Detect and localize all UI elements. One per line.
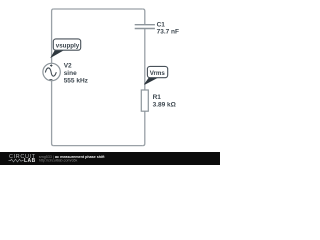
label V2 sine 555 kHz	[64, 62, 89, 84]
svg-text:http://circuitlab.com/c6k: http://circuitlab.com/c6k	[39, 158, 78, 162]
wire from V2 top up to top-left corner (node vsupply)	[52, 9, 54, 63]
wire C1 bottom plate to R1 top (node Vrms)	[144, 29, 146, 90]
label R1 3.89 kOhm	[153, 94, 176, 108]
svg-text:LAB: LAB	[24, 158, 36, 164]
svg-text:73.7 nF: 73.7 nF	[157, 28, 179, 35]
label C1 73.7 nF	[157, 22, 179, 36]
wire bottom-left corner up to V2 bottom	[52, 81, 54, 146]
svg-text:Vrms: Vrms	[150, 70, 166, 77]
voltage source V2	[43, 63, 60, 80]
svg-text:V2: V2	[64, 62, 72, 69]
wire R1 bottom to bottom-right corner	[143, 111, 145, 145]
svg-text:3.89 kΩ: 3.89 kΩ	[153, 102, 176, 109]
svg-text:555 kHz: 555 kHz	[64, 77, 89, 84]
wire bottom horizontal run	[54, 145, 143, 147]
svg-text:R1: R1	[153, 94, 162, 101]
svg-text:sine: sine	[64, 70, 77, 77]
svg-text:vsupply: vsupply	[56, 43, 80, 50]
node flag Vrms	[145, 66, 168, 84]
footer bar	[0, 152, 220, 165]
node flag vsupply	[51, 39, 80, 57]
wire top-right corner down to C1 top plate	[143, 9, 145, 24]
resistor R1	[141, 90, 148, 111]
footer logo resistor zigzag	[9, 159, 24, 162]
wire top horizontal run	[54, 8, 143, 10]
capacitor C1	[135, 25, 155, 29]
